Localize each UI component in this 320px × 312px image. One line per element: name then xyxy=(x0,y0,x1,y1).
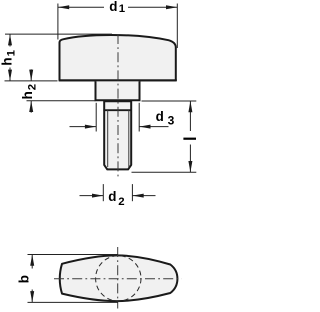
wing knob outline (top view) xyxy=(60,255,178,301)
d2 extension line right xyxy=(131,184,133,201)
d1 arrow right xyxy=(166,5,177,9)
dimension d1 extension line right xyxy=(176,4,178,49)
knob head (side view) xyxy=(60,35,176,80)
h2 upper arrow (pointing down to knob bottom) xyxy=(30,69,32,81)
svg-text:d: d xyxy=(109,0,117,14)
knob bottom edge xyxy=(59,79,177,81)
horizontal centerline (top view) xyxy=(54,278,182,280)
svg-text:1: 1 xyxy=(119,3,126,15)
svg-text:d: d xyxy=(156,109,164,124)
thread minor line right xyxy=(128,110,130,167)
b label (rotated) xyxy=(17,275,32,283)
thread minor line left xyxy=(107,110,109,167)
h1 label (rotated) xyxy=(0,49,18,65)
h1 arrow up xyxy=(8,34,12,45)
l label (rotated lowercase l appears as dash) xyxy=(183,138,196,140)
h2 label (rotated) xyxy=(20,84,38,100)
h2 lower arrow (pointing up to neck bottom) xyxy=(30,101,32,113)
l dimension line xyxy=(189,101,191,131)
vertical centerline (side view) xyxy=(117,34,119,179)
l arrow down xyxy=(188,161,192,172)
d3 extension line left xyxy=(95,103,97,132)
l top extension line xyxy=(142,100,197,102)
vertical centerline (top view) xyxy=(117,247,119,309)
d2 extension line left xyxy=(102,184,104,201)
svg-text:b: b xyxy=(17,275,32,283)
h1 dimension line xyxy=(9,34,11,46)
d2 left arrow xyxy=(80,195,104,197)
svg-text:1: 1 xyxy=(6,49,18,56)
svg-text:3: 3 xyxy=(168,114,175,128)
svg-text:h: h xyxy=(0,57,14,65)
neck xyxy=(96,81,140,100)
svg-text:2: 2 xyxy=(27,84,39,90)
l bottom extension line xyxy=(132,171,197,173)
b bottom extension line xyxy=(28,301,119,303)
b dimension arrows xyxy=(31,255,33,269)
dimension d1 extension line left xyxy=(57,4,59,40)
h2 lower extension line (neck bottom) xyxy=(27,100,96,102)
d3 left arrow xyxy=(70,126,97,128)
hidden circle (boss) xyxy=(96,256,141,301)
d2 right arrow xyxy=(132,195,155,197)
h1 arrow down xyxy=(8,70,12,81)
svg-text:h: h xyxy=(20,91,35,99)
svg-text:2: 2 xyxy=(118,196,124,208)
b top extension line xyxy=(28,254,119,256)
d1 arrow left xyxy=(58,5,69,9)
d3 extension line right xyxy=(138,103,140,132)
svg-text:d: d xyxy=(108,189,116,204)
h1 bottom extension line xyxy=(5,80,58,82)
l arrow up xyxy=(188,101,192,112)
dimension d1 line xyxy=(58,6,104,8)
threaded stud xyxy=(104,101,131,169)
d3 right arrow with leader xyxy=(139,126,168,128)
h1 top extension line xyxy=(5,33,112,35)
thread runout line xyxy=(103,109,132,111)
